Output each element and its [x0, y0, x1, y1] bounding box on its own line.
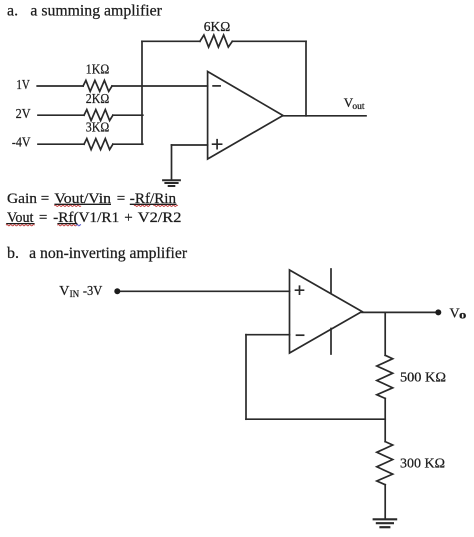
svg-text:o: o [459, 310, 467, 322]
svg-text:+: + [124, 210, 132, 226]
svg-text:IN: IN [70, 289, 80, 299]
svg-text:=: = [39, 210, 47, 226]
svg-text:=: = [117, 191, 125, 207]
svg-text:300 KΩ: 300 KΩ [400, 457, 445, 472]
svg-text:a non-inverting amplifier: a non-inverting amplifier [29, 245, 188, 262]
svg-text:2KΩ: 2KΩ [86, 91, 110, 106]
svg-text:3KΩ: 3KΩ [86, 120, 110, 135]
svg-text:b.: b. [7, 245, 19, 262]
svg-text:2V: 2V [16, 106, 31, 121]
svg-text:a summing amplifier: a summing amplifier [30, 3, 162, 20]
svg-text:V: V [59, 284, 69, 299]
svg-text:1V: 1V [16, 77, 30, 92]
svg-text:6KΩ: 6KΩ [204, 20, 231, 35]
svg-text:-3V: -3V [83, 284, 102, 299]
svg-text:1KΩ: 1KΩ [86, 62, 110, 77]
svg-text:a.: a. [7, 3, 18, 20]
svg-text:Gain: Gain [7, 191, 37, 207]
svg-text:-4V: -4V [12, 135, 31, 150]
svg-text:V2/R2: V2/R2 [138, 210, 182, 226]
svg-text:out: out [352, 102, 365, 112]
svg-text:500 KΩ: 500 KΩ [400, 371, 446, 386]
svg-text:=: = [41, 191, 49, 207]
